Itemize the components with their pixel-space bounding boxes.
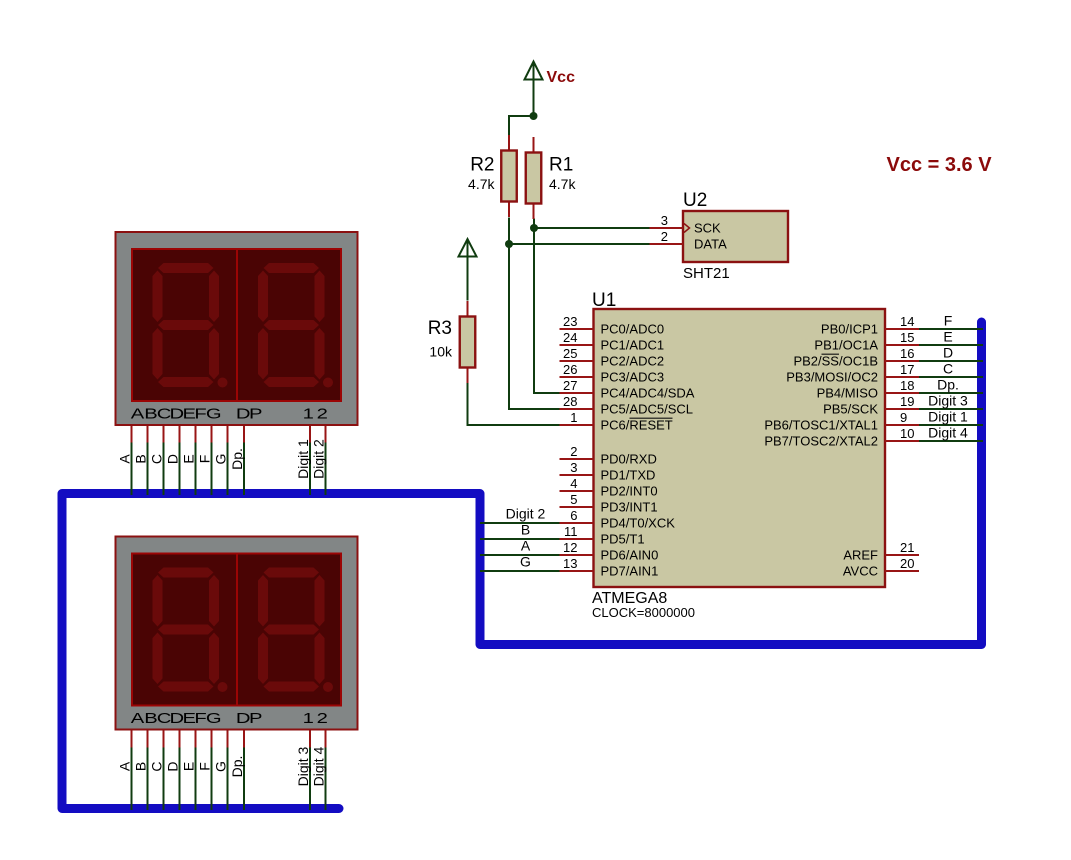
svg-text:10: 10 <box>900 426 914 441</box>
junction Vcc/R1/R2 <box>530 112 538 120</box>
svg-text:PC5/ADC5/SCL: PC5/ADC5/SCL <box>601 402 693 417</box>
svg-text:1: 1 <box>570 410 577 425</box>
resistor R2 <box>508 135 510 151</box>
svg-text:18: 18 <box>900 378 914 393</box>
DS2 pin stubs <box>131 731 133 748</box>
svg-text:PC0/ADC0: PC0/ADC0 <box>601 322 665 337</box>
svg-text:PC4/ADC4/SDA: PC4/ADC4/SDA <box>601 386 695 401</box>
svg-text:SHT21: SHT21 <box>683 265 730 282</box>
svg-text:U1: U1 <box>592 290 616 311</box>
wire DATA horizontal <box>509 243 650 245</box>
svg-text:24: 24 <box>563 330 577 345</box>
svg-text:11: 11 <box>564 524 578 539</box>
svg-text:Dp.: Dp. <box>937 377 959 393</box>
svg-text:B: B <box>133 762 149 771</box>
svg-text:4: 4 <box>570 476 577 491</box>
svg-text:SCK: SCK <box>694 221 721 236</box>
svg-text:CLOCK=8000000: CLOCK=8000000 <box>592 605 695 620</box>
svg-text:23: 23 <box>563 314 577 329</box>
svg-text:PD3/INT1: PD3/INT1 <box>601 500 658 515</box>
svg-text:20: 20 <box>900 556 914 571</box>
DS2 net labels <box>117 746 327 786</box>
U1 right pin numbers <box>900 314 914 571</box>
svg-text:A: A <box>117 761 133 771</box>
U1 left pin stubs <box>560 328 594 330</box>
resistor R3 <box>467 301 469 317</box>
svg-text:D: D <box>165 761 181 771</box>
svg-text:G: G <box>520 554 531 570</box>
svg-text:DATA: DATA <box>694 237 727 252</box>
DS2 wires to bus <box>131 748 133 811</box>
svg-text:PB1/OC1A: PB1/OC1A <box>814 338 878 353</box>
svg-text:F: F <box>197 762 213 771</box>
svg-text:17: 17 <box>900 362 914 377</box>
wire R3 bottom to pin 1 (RESET) <box>468 383 560 425</box>
svg-text:Digit 2: Digit 2 <box>506 506 546 522</box>
U1 right pin stubs <box>885 328 919 330</box>
svg-text:PD5/T1: PD5/T1 <box>601 532 645 547</box>
svg-text:27: 27 <box>563 378 577 393</box>
resistor R1 <box>533 137 535 153</box>
DS1 net labels <box>117 439 327 479</box>
svg-text:Digit 3: Digit 3 <box>295 746 311 786</box>
svg-text:B: B <box>133 454 149 463</box>
svg-text:A: A <box>117 454 133 464</box>
Vcc power rail symbol (R3) <box>459 239 477 301</box>
junction SCK <box>530 224 538 232</box>
svg-text:PB6/TOSC1/XTAL1: PB6/TOSC1/XTAL1 <box>764 418 878 433</box>
svg-text:AREF: AREF <box>843 548 878 563</box>
svg-text:4.7k: 4.7k <box>549 176 576 192</box>
svg-text:PC3/ADC3: PC3/ADC3 <box>601 370 665 385</box>
svg-text:PC2/ADC2: PC2/ADC2 <box>601 354 665 369</box>
wire R1 bottom to SCK net and pin 27 <box>534 219 560 394</box>
MCU U1 body <box>594 309 886 587</box>
svg-text:E: E <box>181 454 197 463</box>
blue bus wire <box>62 322 982 809</box>
svg-text:PD6/AIN0: PD6/AIN0 <box>601 548 659 563</box>
svg-text:R3: R3 <box>428 318 452 339</box>
svg-text:F: F <box>944 313 953 329</box>
display DS2 <box>116 537 358 730</box>
svg-text:Digit 3: Digit 3 <box>928 393 968 409</box>
svg-text:6: 6 <box>570 508 577 523</box>
svg-text:B: B <box>521 522 530 538</box>
svg-text:PD1/TXD: PD1/TXD <box>601 468 656 483</box>
svg-text:15: 15 <box>900 330 914 345</box>
svg-text:4.7k: 4.7k <box>468 176 495 192</box>
svg-text:PB2/SS/OC1B: PB2/SS/OC1B <box>793 354 878 369</box>
svg-text:PB7/TOSC2/XTAL2: PB7/TOSC2/XTAL2 <box>764 434 878 449</box>
wire R2 bottom to DATA net and pin 28 <box>509 218 560 410</box>
svg-text:R2: R2 <box>470 154 494 175</box>
Vcc power rail symbol (top) <box>525 62 543 117</box>
U1 right net labels <box>928 313 968 441</box>
display DS1 <box>116 232 358 425</box>
svg-text:PC1/ADC1: PC1/ADC1 <box>601 338 665 353</box>
svg-text:Digit 4: Digit 4 <box>928 425 968 441</box>
DS1 pin stubs <box>131 426 133 443</box>
svg-text:21: 21 <box>900 540 914 555</box>
wire Vcc branch to R2 <box>509 116 534 135</box>
svg-text:3: 3 <box>661 213 668 228</box>
svg-text:D: D <box>165 454 181 464</box>
svg-text:Digit 2: Digit 2 <box>311 439 327 479</box>
svg-text:10k: 10k <box>429 344 453 360</box>
svg-text:PD2/INT0: PD2/INT0 <box>601 484 658 499</box>
svg-text:13: 13 <box>563 556 577 571</box>
junction DATA <box>505 240 513 248</box>
svg-text:3: 3 <box>570 460 577 475</box>
svg-text:25: 25 <box>563 346 577 361</box>
svg-text:PD4/T0/XCK: PD4/T0/XCK <box>601 516 676 531</box>
svg-text:12: 12 <box>563 540 577 555</box>
U2 pin stub SCK <box>650 227 684 229</box>
svg-text:G: G <box>213 761 229 772</box>
U2 pin stub DATA <box>650 243 684 245</box>
svg-text:AVCC: AVCC <box>843 564 878 579</box>
svg-text:C: C <box>149 761 165 771</box>
svg-text:G: G <box>213 454 229 465</box>
sensor U2 body <box>683 211 788 262</box>
wire SCK horizontal <box>534 227 650 229</box>
U2 clock chevron <box>684 224 690 233</box>
overline RESET (pin PC6) <box>630 417 673 419</box>
U1 right pin names <box>764 322 878 579</box>
svg-text:Vcc = 3.6 V: Vcc = 3.6 V <box>887 154 993 176</box>
overline SS (pin PB2) <box>822 353 840 355</box>
svg-text:PD0/RXD: PD0/RXD <box>601 452 657 467</box>
svg-text:Vcc: Vcc <box>547 69 576 86</box>
svg-text:Digit 1: Digit 1 <box>928 409 968 425</box>
svg-text:PB4/MISO: PB4/MISO <box>817 386 878 401</box>
U1 left pin numbers <box>563 314 577 571</box>
svg-text:E: E <box>181 762 197 771</box>
svg-text:19: 19 <box>900 394 914 409</box>
svg-text:E: E <box>943 329 952 345</box>
svg-text:16: 16 <box>900 346 914 361</box>
svg-text:Digit 1: Digit 1 <box>295 439 311 479</box>
svg-text:PB5/SCK: PB5/SCK <box>823 402 878 417</box>
svg-text:F: F <box>197 455 213 464</box>
svg-text:A: A <box>521 538 531 554</box>
svg-text:PB3/MOSI/OC2: PB3/MOSI/OC2 <box>786 370 878 385</box>
U1 left wires to bus (pins 6,11,12,13) <box>480 522 560 524</box>
svg-text:C: C <box>149 454 165 464</box>
U1 right wires to bus <box>919 328 983 330</box>
svg-text:PB0/ICP1: PB0/ICP1 <box>821 322 878 337</box>
svg-text:D: D <box>943 345 953 361</box>
svg-text:2: 2 <box>570 444 577 459</box>
svg-text:Dp.: Dp. <box>229 448 245 470</box>
U1 left pin names <box>601 322 695 579</box>
svg-text:26: 26 <box>563 362 577 377</box>
svg-text:PD7/AIN1: PD7/AIN1 <box>601 564 659 579</box>
svg-text:9: 9 <box>900 410 907 425</box>
DS1 wires to bus <box>131 443 133 496</box>
svg-text:PC6/RESET: PC6/RESET <box>601 418 673 433</box>
svg-text:14: 14 <box>900 314 914 329</box>
svg-text:28: 28 <box>563 394 577 409</box>
svg-text:Digit 4: Digit 4 <box>311 746 327 786</box>
svg-text:5: 5 <box>570 492 577 507</box>
svg-text:U2: U2 <box>683 190 707 211</box>
svg-text:Dp.: Dp. <box>229 756 245 778</box>
svg-text:2: 2 <box>661 229 668 244</box>
U1 left net labels <box>506 506 546 570</box>
svg-text:C: C <box>943 361 953 377</box>
svg-text:R1: R1 <box>549 154 573 175</box>
